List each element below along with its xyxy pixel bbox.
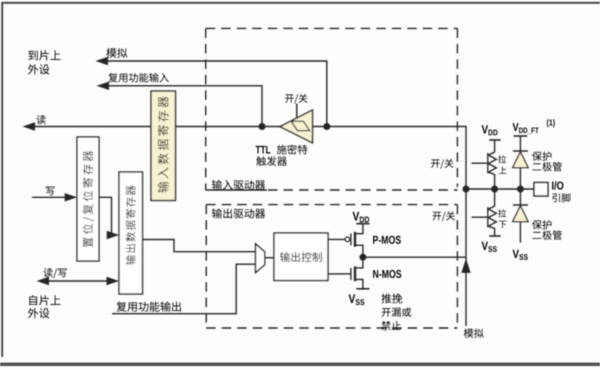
power VDD_FT	[513, 119, 555, 136]
label 开/关 (pull-down switch)	[433, 211, 455, 221]
node junction at AF-input branch	[259, 123, 266, 130]
diode protection upper	[513, 136, 528, 189]
node output junction	[359, 254, 366, 261]
wire write + arrow	[32, 193, 77, 201]
label 输出驱动器	[212, 208, 265, 218]
label N-MOS	[373, 270, 401, 278]
label 拉下	[498, 209, 506, 228]
label 写	[46, 186, 55, 195]
label 保护二极管 (lower)	[532, 220, 562, 240]
power VDD (pmos)	[353, 212, 370, 224]
label 输入驱动器	[212, 180, 265, 190]
output driver dashed box 输出驱动器	[206, 205, 457, 328]
node pull junction	[491, 186, 498, 193]
wire mux to output control	[265, 257, 274, 259]
label 开/关 (pull-up switch)	[431, 159, 453, 169]
wire alternate function output	[112, 264, 256, 314]
power VSS (nmos)	[349, 289, 370, 305]
block 输出控制 (output control)	[274, 233, 328, 281]
label 开/关 (schmitt switch)	[285, 94, 307, 104]
transistor N-MOS	[351, 257, 363, 289]
label 到片上外设	[28, 50, 61, 74]
register 置位/复位寄存器 (bit set/reset register)	[77, 137, 99, 261]
label TTL 施密特触发器	[256, 145, 308, 166]
node diode junction	[517, 186, 524, 193]
wire gate to P-MOS	[328, 238, 345, 240]
label 自片上外设	[28, 295, 61, 318]
mux selector trapezoid	[256, 244, 265, 273]
transistor P-MOS	[345, 224, 363, 257]
wire driver output	[363, 256, 466, 258]
wire analog path down + up arrow	[461, 189, 470, 326]
diode protection lower	[513, 189, 528, 243]
wire read line + arrow	[23, 122, 467, 189]
power VDD (pull-up)	[482, 125, 501, 140]
input driver dashed box 输入驱动器	[206, 28, 458, 190]
wire I/O pin net	[466, 188, 534, 190]
TTL schmitt trigger triangle	[280, 110, 313, 143]
power VSS (pull-down)	[482, 236, 501, 252]
label 模拟 (bottom)	[464, 328, 484, 337]
pin I/O 引脚	[534, 181, 570, 202]
register 输入数据寄存器 (input data register)	[151, 91, 176, 201]
label 读	[36, 115, 45, 124]
power VSS (lower diode)	[513, 250, 528, 260]
label 复用功能输出	[116, 302, 180, 312]
wire set/reset reg to output data reg + arrow	[99, 197, 119, 239]
resistor pull-up + switch	[472, 140, 497, 189]
label 模拟 (top)	[106, 48, 127, 58]
wire analog input to on-chip + arrow	[96, 57, 327, 127]
node junction at analog branch	[323, 123, 330, 130]
wire gate to N-MOS	[328, 273, 351, 275]
label 保护二极管 (upper)	[532, 151, 562, 171]
label 推挽开漏或禁止	[381, 293, 411, 330]
wire alternate function input + arrow	[97, 82, 263, 127]
wire output data reg to mux	[143, 240, 256, 252]
label 读/写	[43, 268, 66, 278]
wire read/write double arrow	[37, 277, 120, 285]
wire switch stub to schmitt	[296, 104, 298, 119]
label P-MOS	[373, 236, 401, 244]
resistor pull-down + switch	[472, 189, 497, 236]
label 拉上	[498, 155, 506, 174]
node pin-net left junction	[463, 186, 470, 193]
register 输出数据寄存器 (output data register)	[119, 172, 143, 294]
label 复用功能输入	[108, 73, 168, 82]
